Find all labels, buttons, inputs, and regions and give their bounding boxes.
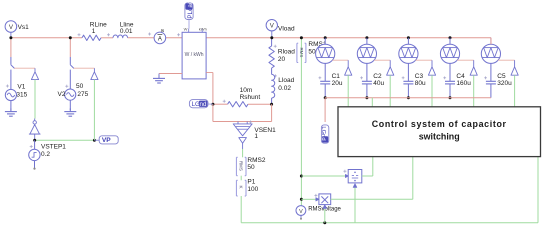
svg-text:V: V	[299, 209, 303, 215]
svg-text:kWh: kWh	[199, 27, 207, 32]
svg-text:80u: 80u	[415, 80, 426, 87]
svg-text:A: A	[158, 37, 162, 43]
svg-text:275: 275	[77, 91, 88, 98]
svg-text:Rshunt: Rshunt	[240, 94, 261, 101]
svg-text:W / kWh: W / kWh	[185, 52, 204, 58]
svg-text:20u: 20u	[332, 80, 343, 87]
svg-text:V1: V1	[17, 84, 25, 91]
svg-text:Lload: Lload	[278, 77, 294, 84]
svg-text:20: 20	[278, 56, 286, 63]
svg-text:100: 100	[247, 186, 258, 193]
svg-text:VP: VP	[102, 137, 111, 144]
svg-text:P1: P1	[247, 179, 255, 186]
svg-text:40u: 40u	[373, 80, 384, 87]
svg-text:0.01: 0.01	[120, 28, 133, 35]
svg-text:Vload: Vload	[278, 26, 295, 33]
svg-text:0.2: 0.2	[41, 151, 50, 158]
svg-text:Rload: Rload	[278, 48, 295, 55]
svg-text:Control system of capacitor: Control system of capacitor	[372, 119, 507, 129]
svg-text:50: 50	[308, 49, 316, 56]
svg-text:LGnd: LGnd	[320, 126, 326, 140]
svg-text:RMS: RMS	[299, 48, 304, 58]
svg-text:W: W	[184, 27, 188, 32]
svg-text:V2: V2	[58, 91, 66, 98]
svg-text:Vs1: Vs1	[18, 24, 30, 31]
svg-text:160u: 160u	[456, 80, 471, 87]
svg-text:320u: 320u	[497, 80, 512, 87]
svg-text:RMS2: RMS2	[247, 157, 265, 164]
svg-text:10m: 10m	[240, 87, 253, 94]
svg-text:RMS: RMS	[239, 161, 244, 171]
svg-text:nd: nd	[200, 101, 207, 108]
svg-text:1: 1	[254, 133, 258, 140]
svg-text:0.02: 0.02	[278, 85, 291, 92]
svg-text:1: 1	[92, 28, 96, 35]
svg-text:50: 50	[76, 83, 84, 90]
svg-text:switching: switching	[419, 132, 460, 142]
svg-text:50: 50	[247, 164, 255, 171]
svg-text:PLoad: PLoad	[187, 0, 194, 18]
svg-text:315: 315	[16, 91, 27, 98]
svg-text:VSTEP1: VSTEP1	[41, 143, 66, 150]
